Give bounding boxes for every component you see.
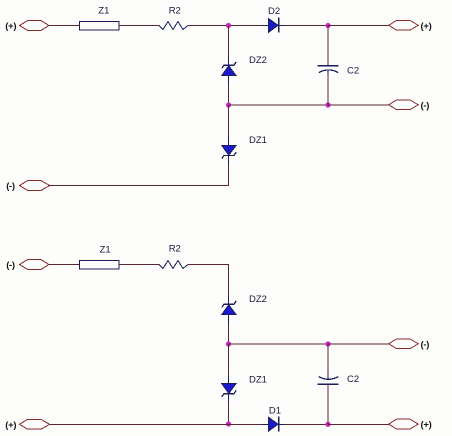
wire C2 to node H	[327, 384, 329, 424]
wire Z1 to R2 (bottom)	[119, 264, 159, 266]
zener diode DZ2 (top circuit)	[222, 57, 237, 85]
zener diode DZ1 (bottom circuit)	[222, 376, 237, 404]
svg-text:DZ2: DZ2	[249, 294, 267, 305]
wire C2 to node D	[327, 75, 329, 105]
capacitor C2 (bottom circuit)	[318, 374, 339, 385]
fuse Z1 (bottom)	[80, 260, 120, 269]
junction node D	[325, 102, 330, 107]
wire node E down to DZ1 (bottom)	[228, 344, 230, 376]
junction node G	[226, 421, 231, 426]
wire port1 to Z1	[49, 25, 80, 27]
wire D2 to node B	[285, 25, 328, 27]
svg-text:(+): (+)	[421, 21, 432, 32]
svg-text:R2: R2	[169, 6, 181, 17]
wire node D to port P3	[328, 104, 389, 106]
wire node A to D2	[229, 25, 263, 27]
wire DZ2 to node E	[228, 324, 230, 344]
svg-text:DZ1: DZ1	[249, 374, 267, 385]
svg-text:Z1: Z1	[98, 6, 109, 17]
junction node A	[226, 23, 231, 28]
wire DZ1 to node G	[228, 403, 230, 424]
junction node F	[325, 341, 330, 346]
wire Z1 to R2	[119, 25, 159, 27]
wire node C to node D	[229, 104, 329, 106]
wire node B to port P2	[328, 25, 389, 27]
wire node C down to DZ1	[228, 105, 230, 137]
wire node A down to DZ2	[228, 26, 230, 58]
svg-text:(-): (-)	[6, 181, 15, 192]
svg-text:DZ2: DZ2	[249, 55, 267, 66]
wire R2 to corner and down to DZ2	[188, 265, 229, 297]
fuse Z1 (top)	[80, 21, 120, 30]
zener diode DZ2 (bottom circuit)	[222, 296, 237, 324]
resistor R2 (top)	[159, 22, 188, 30]
diode D2	[262, 18, 285, 33]
connector port P7 (+) bottom-left	[20, 419, 50, 429]
svg-text:D1: D1	[269, 406, 281, 417]
connector port P4 (-) bottom-left of top circuit	[20, 181, 50, 191]
svg-text:(+): (+)	[421, 420, 432, 431]
svg-text:(-): (-)	[421, 339, 430, 350]
wire DZ1 down to bottom rail corner	[50, 164, 229, 186]
resistor R2 (bottom)	[159, 261, 188, 269]
svg-text:C2: C2	[347, 66, 359, 77]
svg-text:R2: R2	[169, 243, 181, 254]
svg-text:Z1: Z1	[100, 245, 111, 256]
junction node B	[325, 23, 330, 28]
connector port P5 (-) top-left of bottom circuit	[20, 260, 50, 270]
zener diode DZ1 (top circuit)	[222, 137, 237, 165]
svg-text:C2: C2	[347, 374, 359, 385]
wire node E to node F	[229, 343, 329, 345]
svg-text:(-): (-)	[6, 260, 15, 271]
svg-text:(+): (+)	[5, 420, 16, 431]
connector port P6 (-) mid-right of bottom circuit	[389, 339, 418, 349]
svg-text:(-): (-)	[421, 100, 430, 111]
junction node H	[325, 422, 330, 427]
wire DZ2 to node C	[228, 85, 230, 105]
wire R2 to node A	[188, 25, 229, 27]
wire D1 to node H	[285, 423, 328, 425]
svg-text:D2: D2	[268, 6, 280, 17]
wire node B down to C2	[327, 26, 329, 65]
wire port P7 to node G	[50, 423, 229, 425]
junction node E	[226, 341, 231, 346]
wire node G to D1	[229, 423, 263, 425]
wire node F to port P6	[328, 343, 389, 345]
connector port P1 (+) top-left	[20, 21, 50, 31]
diode D1	[262, 416, 285, 431]
connector port P8 (+) bottom-right	[389, 419, 418, 429]
junction node C	[226, 102, 231, 107]
wire port5 to Z1	[49, 264, 80, 266]
capacitor C2 (top circuit)	[318, 64, 339, 75]
svg-text:(+): (+)	[5, 21, 16, 32]
svg-text:DZ1: DZ1	[249, 135, 267, 146]
connector port P3 (-) mid-right	[389, 100, 418, 110]
wire node H to port P8	[328, 423, 389, 425]
connector port P2 (+) top-right	[389, 20, 418, 30]
wire node F down to C2 (bottom)	[327, 344, 329, 375]
